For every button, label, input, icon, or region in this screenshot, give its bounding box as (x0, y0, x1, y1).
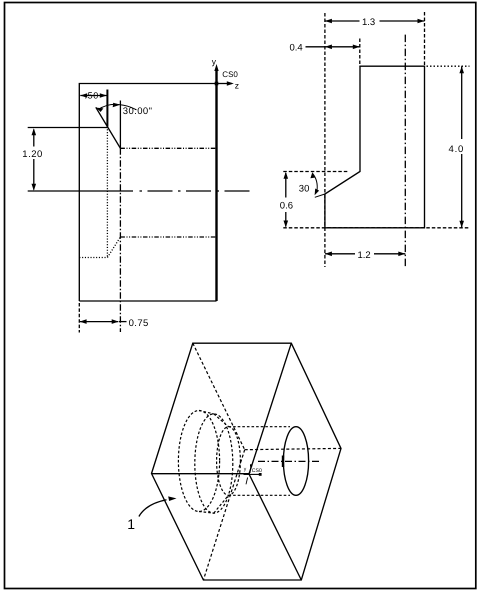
dimension 0.75 (80, 318, 149, 329)
near corner edge lower diagonal (249, 474, 301, 580)
chamfer edge vertical thick (.50 offset) (106, 90, 108, 127)
thick tick on hole ellipse (282, 456, 284, 468)
dimension 1.20 (22, 128, 43, 191)
extension line for 1.20 top (28, 127, 108, 129)
dash-dot vertical extension x=120 (119, 148, 121, 332)
svg-text:.50: .50 (85, 91, 99, 101)
far corner hidden edge to top-left (193, 343, 245, 450)
near corner edge upper diagonal (249, 343, 291, 474)
counterbore back ellipse dashed (195, 414, 233, 513)
svg-text:CS0: CS0 (222, 70, 238, 79)
cylinder silhouette dashed lines (199, 411, 290, 514)
origin marker (215, 82, 219, 86)
extension dashed x=360 (359, 39, 361, 67)
hole exit ellipse solid (283, 427, 308, 496)
hole small ellipse dashed (217, 427, 241, 496)
CS0 marker at near corner (244, 464, 263, 484)
angle arc 30 side view (310, 172, 319, 195)
front view outline rectangle (79, 84, 216, 302)
cylinder axis dash-dot (258, 460, 319, 462)
leader line for label 1 (139, 496, 177, 516)
chamfer stub extension (315, 194, 325, 197)
dimension 1.2 (325, 247, 405, 261)
dashed extension below rect left (78, 303, 80, 333)
dimension 0.4 (290, 43, 360, 54)
extension dashed y=227.8 (283, 227, 470, 229)
far corner hidden edge to right (245, 448, 341, 449)
y-axis thick line (214, 64, 218, 301)
svg-text:4.0: 4.0 (449, 144, 465, 155)
svg-text:0.6: 0.6 (280, 200, 293, 211)
z axis line (217, 81, 234, 86)
svg-text:y: y (244, 467, 247, 473)
hidden dotted horizontal bottom left (79, 257, 107, 259)
hidden phantom line bottom (120, 236, 216, 238)
svg-text:30:00": 30:00" (123, 106, 153, 117)
far corner hidden edge to bottom-left (203, 450, 244, 580)
counterbore front ellipse dashed (178, 411, 219, 512)
svg-text:z: z (235, 81, 239, 91)
svg-text:1: 1 (127, 516, 135, 532)
dotted extension y=66.2 right (427, 65, 470, 67)
svg-text:0.4: 0.4 (290, 43, 303, 54)
hidden phantom line top (120, 147, 216, 149)
centerline (28, 190, 252, 192)
svg-text:1.3: 1.3 (362, 17, 375, 28)
angle extension vertical line (119, 101, 121, 149)
angle dimension arc 30:00 (96, 103, 152, 117)
extension dashed left x=325 (324, 13, 326, 267)
hexagon block outline (152, 343, 342, 580)
hidden dotted diagonal bottom (107, 237, 120, 258)
svg-text:y: y (212, 57, 217, 67)
chamfer diagonal 30deg (96, 107, 121, 148)
svg-text:0.75: 0.75 (129, 318, 149, 329)
extension dashed y=171.5 (283, 171, 348, 173)
side profile outline (325, 66, 425, 228)
dimension 1.3 (325, 15, 425, 28)
svg-text:CS0: CS0 (252, 468, 262, 474)
dimension .50 (80, 91, 107, 101)
svg-text:1.20: 1.20 (22, 149, 43, 160)
centerline dash-dot x=405 (404, 35, 406, 267)
extension dashed x=424.5 (424, 12, 426, 66)
hidden dotted vertical (106, 127, 108, 258)
svg-text:1.2: 1.2 (358, 250, 371, 261)
svg-text:30: 30 (299, 183, 310, 194)
near corner edge horizontal (152, 473, 250, 475)
dimension 0.6 (280, 172, 293, 228)
dimension 4.0 (447, 66, 467, 228)
